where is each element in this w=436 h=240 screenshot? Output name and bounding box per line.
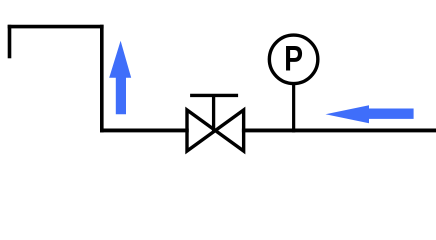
flow arrow up (blue)	[109, 41, 131, 114]
valve V1 body (crossed bowtie)	[187, 110, 244, 151]
wire: top inlet horizontal	[8, 25, 104, 29]
svg-text:P: P	[284, 39, 303, 79]
valve V1 handle bar	[190, 94, 238, 97]
wire: main pipe left of valve	[100, 128, 189, 132]
gauge stem	[292, 84, 295, 132]
valve V1 stem	[212, 95, 215, 131]
wire: left inlet stub vertical	[8, 25, 12, 59]
pressure gauge P circle	[269, 35, 318, 84]
wire: main pipe right of valve	[242, 128, 436, 132]
flow arrow left (blue)	[326, 105, 414, 123]
wire: downcomer vertical	[100, 25, 104, 133]
